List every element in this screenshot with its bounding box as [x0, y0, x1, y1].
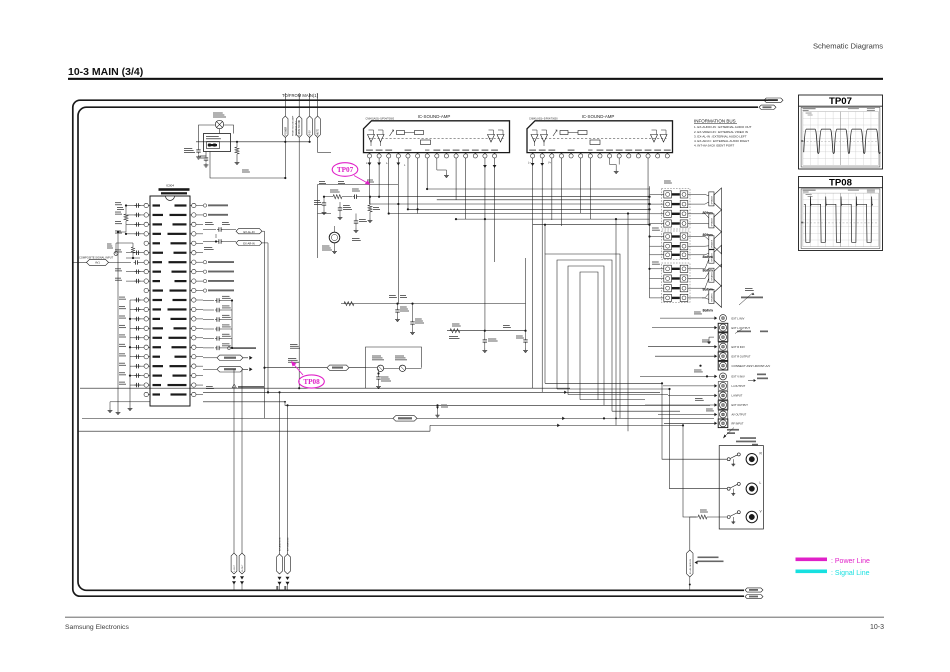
wire cluster frame below amp1 [318, 185, 399, 259]
svg-text:EX-AR-IN: EX-AR-IN [243, 242, 255, 246]
off-page connector pill MUTE [315, 93, 320, 138]
TP07 scope screen frame [801, 107, 880, 167]
speaker wires [702, 194, 709, 299]
front AV switch R [727, 453, 740, 466]
frame top outer terminator pill [764, 98, 783, 102]
ground stub near jack 3 [707, 337, 714, 344]
svg-text:L: L [760, 481, 762, 485]
resistor R871 before V jack [698, 510, 727, 520]
speaker connector pin pair row 7 [650, 251, 703, 258]
wire stub from IC004 right pin row 17 [196, 356, 203, 358]
TP08 scope left marker [801, 222, 803, 224]
label 'NOT USED IN G/50 EXTEND OUTPUT' at right pin 10 [203, 289, 234, 292]
left bus vertical wire x=130 [129, 300, 131, 406]
capacitor C845 to ground [449, 330, 498, 353]
svg-text:AV OUTPUT: AV OUTPUT [732, 413, 747, 417]
svg-text:L/-OUTPUT: L/-OUTPUT [732, 384, 746, 388]
off-page connector pill POWER [283, 93, 288, 138]
svg-text:2. EX-VIDEO-IN : EXTERNAL VIDE: 2. EX-VIDEO-IN : EXTERNAL VIDEO IN [694, 130, 748, 134]
IC004 right pin 28 [190, 336, 196, 340]
resistor R804 drop from relay rail [235, 142, 240, 165]
label OUTPUT IN note jack2 [735, 329, 768, 334]
capacitor cluster at IC004 left pin 8 [115, 268, 144, 274]
front AV RCA jack R [746, 452, 762, 465]
IC004 right pin 25 [190, 364, 196, 368]
speaker symbol 2 80hm [703, 210, 722, 237]
capacitor C842 vertical with ground [314, 197, 326, 215]
capacitor cluster at IC004 left pin 16 [119, 344, 144, 350]
capacitor cluster at IC004 left pin 2 [115, 212, 144, 218]
TP07 scope left marker [801, 140, 803, 142]
label 'NOT USED IN MONITOR' at right pin 2 [203, 213, 228, 216]
svg-text:R-OUT: R-OUT [242, 564, 244, 572]
svg-text:V+: V+ [548, 162, 552, 165]
IC004 right pin 26 [190, 355, 196, 359]
wire stub from IC004 right pin row 21 [196, 394, 203, 396]
IC801 pin wires down with arrows [366, 158, 406, 304]
wire stub from IC004 right pin row 15 [196, 337, 203, 339]
IC004 left pin 5 [144, 241, 150, 245]
capacitor cluster at IC004 left pin 13 [119, 316, 144, 322]
wire stub from IC004 right pin row 8 [196, 271, 203, 273]
wire mid rail 2 y=330.7 [447, 330, 526, 332]
svg-text:RF INPUT: RF INPUT [732, 422, 744, 426]
TP07 waveform trace [804, 129, 881, 153]
horizontal bus lines amp outputs to right [370, 189, 650, 225]
test point box TP08 outline [799, 177, 883, 251]
IC802 pins [531, 153, 670, 158]
board frame inner line [78, 107, 758, 590]
IC bottom ground [108, 402, 150, 413]
wire stub from IC004 right pin row 18 [196, 365, 203, 367]
IC004 left pin 19 [144, 373, 150, 377]
IC802 pin name row [529, 150, 670, 151]
label 'net' at right pin 6 [0, 0, 1, 1]
svg-text:TP07: TP07 [337, 166, 354, 174]
speaker connector pin pair row 11 [650, 294, 703, 301]
capacitor cluster at IC004 left pin 14 [119, 325, 144, 331]
svg-text:Schematic Diagrams: Schematic Diagrams [813, 42, 883, 51]
IC004 left pin 13 [144, 317, 150, 321]
second feeder bus [679, 189, 681, 191]
speaker connector pin pair row 3 [650, 210, 703, 217]
speaker symbol 3 8ohm [703, 232, 722, 259]
svg-text:EXT L IN/V: EXT L IN/V [732, 316, 745, 320]
svg-text:IC-SOUND-AMP: IC-SOUND-AMP [418, 114, 451, 119]
front AV switch L [727, 482, 740, 495]
IC004 right pin 42 [190, 203, 196, 207]
resistor R841 and cap C844 pair [354, 197, 380, 233]
svg-text:TP08: TP08 [303, 378, 320, 386]
off-page connector pill AV1 [87, 259, 109, 265]
capacitor C843b to ground [410, 303, 424, 335]
svg-text:EX-AL-IN: EX-AL-IN [244, 230, 255, 234]
title rule [68, 78, 883, 80]
IC004 right pin 38 [190, 241, 196, 245]
IC004 left pin 17 [144, 355, 150, 359]
svg-text:L/-INPUT: L/-INPUT [732, 394, 743, 398]
svg-text:SPEAKER: SPEAKER [710, 272, 713, 281]
bus vertical from EX pills x=264.5 [264, 231, 266, 418]
IC004 left pin 7 [144, 260, 150, 264]
TP07 scope header text [803, 108, 816, 109]
IC004 left pin 2 [144, 213, 150, 217]
svg-text:8ohm: 8ohm [703, 308, 714, 313]
IC004 left pin 1 [144, 203, 150, 207]
wire from V node down to ident pill [690, 517, 698, 550]
IC004 left pin 8 [144, 269, 150, 273]
svg-text:CN841(A03)--5/P04/T0600: CN841(A03)--5/P04/T0600 [366, 117, 395, 120]
IC004 right pin 36 [190, 260, 196, 264]
svg-text:EXT V IN/V: EXT V IN/V [732, 375, 745, 379]
resistor R844 on rail2 [450, 324, 461, 333]
IC802 pins 6,7 wires [581, 158, 591, 219]
long rail y=392.3 segment [268, 391, 660, 393]
test point marker TP07 ellipse [332, 163, 370, 185]
svg-text:V: V [760, 510, 763, 514]
speaker connector pin pair row 10 [650, 285, 703, 292]
wire relay block to lower rail [210, 152, 285, 179]
IC801 right pins wires [456, 158, 496, 331]
label NOT SURROUND OUTPUT [228, 347, 257, 350]
pill R-OUT with arrow [203, 367, 253, 372]
svg-text:4. INT-AV-JACK IDENT PORT: 4. INT-AV-JACK IDENT PORT [694, 143, 734, 147]
svg-text:EX-AUDIO-IN: EX-AUDIO-IN [279, 537, 282, 551]
wire stub from IC004 right pin row 1 [196, 205, 203, 207]
TP08 scope graticule [803, 193, 879, 247]
resistor R841b on mid rail [344, 302, 354, 306]
note REPAIR SP [739, 288, 763, 305]
RCA jack 12 RF INPUT [718, 419, 744, 428]
IC004 right pin 29 [190, 326, 196, 330]
IC802 internal op-amp triangles left [531, 130, 548, 146]
wire mid rail y=303.6 [341, 303, 526, 305]
IC004 right pin 22 [190, 392, 196, 396]
label JUMP 829 [290, 344, 298, 345]
IC004 left pin 3 [144, 222, 150, 226]
wires into AV box [662, 383, 727, 517]
IC004 right pin 30 [190, 317, 196, 321]
audio out line R to bottom pill [239, 369, 245, 590]
wire L-OUT arrow to vertical [255, 358, 257, 370]
RCA jack 3 aux [718, 333, 728, 342]
IC004 right pin 24 [190, 373, 196, 377]
pill EX-AL-IN [203, 227, 262, 234]
svg-text:8ohm: 8ohm [703, 286, 714, 291]
ex-video line to bottom pill [285, 405, 291, 590]
jumper R829B [384, 356, 422, 372]
capacitor cluster at IC004 left pin 1 [115, 202, 144, 208]
wire loop around jumper resistors [366, 347, 422, 388]
svg-text:TO/FROM MAIN(1): TO/FROM MAIN(1) [282, 93, 319, 98]
legend signal line [796, 570, 870, 578]
wire stub from IC004 right pin row 19 [196, 375, 203, 377]
wire composite input [73, 261, 87, 263]
junction dots on long rails [278, 391, 280, 393]
capacitor cluster at IC004 left pin 15 [119, 334, 144, 340]
svg-text:CN841(A03)--5/P04/T0600: CN841(A03)--5/P04/T0600 [529, 117, 558, 120]
label 'NOT USED IN MONITOR' at right pin 1 [203, 204, 228, 207]
IC004 right pin 35 [190, 269, 196, 273]
wire from-sound pill down [298, 138, 300, 389]
capacitor cluster at IC004 left pin 3 [115, 221, 144, 227]
jumper labels left of jacks [694, 312, 714, 412]
svg-text:EXT R IN/V: EXT R IN/V [732, 345, 746, 349]
small caps column right of IC mid [203, 296, 233, 350]
svg-text:POWER: POWER [285, 126, 287, 135]
capacitor cluster at IC004 left pin 11 [119, 297, 144, 303]
svg-text:L: L [404, 164, 406, 167]
svg-text:: Power Line: : Power Line [831, 558, 870, 565]
label 'net' at right pin 5 [0, 0, 1, 1]
IC IC802 body [527, 121, 673, 153]
IC802 internal op-amp triangles right [651, 130, 668, 142]
wire mute pill down [317, 138, 319, 153]
bus vertical x=268 [267, 243, 269, 392]
wire stub from IC004 right pin row 6 [196, 252, 203, 254]
wire stub from IC004 right pin row 12 [196, 308, 203, 310]
pill A-CN [263, 365, 365, 370]
TP07 scope graticule [803, 112, 879, 166]
IC004 right pin 37 [190, 251, 196, 255]
TP08 waveform trace [804, 197, 873, 243]
svg-text:SPEAKER: SPEAKER [710, 217, 713, 226]
RCA jack 11 AV OUTPUT [718, 410, 746, 419]
IC004 right pin 40 [190, 222, 196, 226]
front AV RCA jack L [746, 481, 761, 494]
speaker connector pin pair row 9 [650, 275, 703, 282]
IC004 internal pin-name bars [153, 204, 187, 395]
speaker symbol 4 8ohm [703, 245, 722, 272]
RCA jack 5 EXT R OUTPUT [718, 352, 751, 361]
jumper R829A [366, 356, 385, 372]
note JACK INSERT levels [695, 557, 724, 565]
wire main power rail y=142 [196, 141, 310, 143]
resistor R802 upper left of IC [117, 206, 128, 234]
legend power line [796, 558, 871, 566]
long rail y=418.4 with EX-AL-IN pill [82, 416, 714, 421]
label 'NOT USED IN L/50 INPUT' at right pin 8 [203, 270, 234, 273]
electrolytic speaker SP802 piezo [322, 226, 340, 254]
wire stub from IC004 right pin row 14 [196, 327, 203, 329]
RCA jack 7 EXT V IN/V [720, 373, 745, 380]
label ROTARY OP under jacks [723, 428, 739, 439]
IC801 internal dashed bus [370, 137, 504, 139]
front AV RCA jack V [746, 510, 762, 523]
wire stub from IC004 right pin row 4 [196, 233, 203, 235]
wire stub from IC004 right pin row 20 [196, 384, 203, 386]
pill EX-AR-IN [203, 239, 262, 245]
svg-text:SPEAKER: SPEAKER [710, 293, 713, 302]
speaker connector pin pair row 6 [650, 243, 703, 250]
svg-text:EX-VIDEO-IN: EX-VIDEO-IN [288, 537, 290, 551]
IC004 left pin 21 [144, 392, 150, 396]
svg-text:EXT R OUTPUT: EXT R OUTPUT [732, 354, 751, 358]
svg-text:COMPOSITE SIGNAL INPUT: COMPOSITE SIGNAL INPUT [79, 256, 114, 260]
speaker bus right vertical [721, 197, 723, 296]
capacitor cluster at IC004 left pin 4 [115, 230, 144, 236]
IC IC801 body [364, 121, 510, 153]
svg-text:: Signal Line: : Signal Line [831, 570, 870, 577]
IC004 left pin 6 [144, 251, 150, 255]
svg-text:EXT OUTPUT: EXT OUTPUT [732, 403, 749, 407]
svg-text:SPEAKER: SPEAKER [710, 239, 713, 248]
IC004 right pin 33 [190, 288, 196, 292]
svg-text:R: R [760, 452, 763, 456]
svg-text:MUTE: MUTE [318, 129, 320, 136]
wire stub from IC004 right pin row 2 [196, 214, 203, 216]
label 4P CN825 [652, 262, 659, 263]
svg-text:TP08: TP08 [829, 178, 853, 189]
label SP 1 CN824 [652, 228, 659, 229]
wire power pill down to relay rail [284, 138, 286, 179]
junction dots speaker feeders [648, 203, 650, 205]
svg-text:IC-SOUND-AMP: IC-SOUND-AMP [582, 114, 615, 119]
svg-text:FROM SOUND AMP: FROM SOUND AMP [292, 115, 295, 136]
RCA jack 8 L/-OUTPUT [718, 382, 745, 391]
IC802 internal blocks [553, 130, 600, 145]
speaker symbol 6 8ohm [703, 285, 722, 312]
IC004 right pin 41 [190, 213, 196, 217]
IC801 internal op-amp triangles left [368, 130, 385, 146]
IC004 right pin 27 [190, 345, 196, 349]
pill EX-AV-JACK ident [687, 550, 693, 577]
vertical feeders from bus rows down right side [544, 212, 629, 431]
test point marker TP08 ellipse [291, 361, 324, 388]
svg-text:3. EX-AL-IN : EXTERNAL AUDIO L: 3. EX-AL-IN : EXTERNAL AUDIO LEFT [694, 134, 747, 138]
wire ident pill to bottom frame [689, 577, 691, 590]
speaker connector pin pair row 8 [650, 265, 703, 272]
label R808 on wire [242, 170, 249, 171]
speaker symbol 1 80hm [703, 188, 722, 215]
TP08 scope header text [803, 190, 816, 191]
label digital ground for ics [232, 384, 264, 388]
IC004 right pin 34 [190, 279, 196, 283]
IC801 pin5-7 wires [408, 158, 449, 214]
rail y=425.4 [430, 424, 683, 426]
svg-text:A-5V: A-5V [309, 130, 312, 136]
svg-text:80hm: 80hm [703, 210, 714, 215]
TP08 scope screen frame [801, 189, 880, 249]
svg-text:Samsung Electronics: Samsung Electronics [65, 624, 129, 631]
svg-text:10-3: 10-3 [870, 624, 884, 631]
label 'NOT USED IN G/50 EXTEND OUTPUT' at right pin 9 [203, 279, 234, 282]
RCA jack 2 EXT L OUTPUT [718, 323, 750, 332]
IC801 pin name row [366, 150, 498, 151]
IC802 internal dashed bus [533, 137, 667, 139]
front AV switch V [727, 511, 740, 524]
svg-text:IC004: IC004 [166, 184, 174, 188]
svg-text:EXT L OUTPUT: EXT L OUTPUT [732, 326, 751, 330]
left feeder bus for speaker connectors [649, 186, 651, 298]
IC801 pins [367, 153, 496, 158]
speaker connector pin pair row 5 [650, 233, 703, 240]
IC004 left pin 12 [144, 307, 150, 311]
wire stub from IC004 right pin row 13 [196, 318, 203, 320]
svg-text:SPEAKER: SPEAKER [710, 195, 713, 204]
svg-text:SOUND-B OUT: SOUND-B OUT [296, 120, 298, 136]
IC802 pin wires down with arrows [528, 158, 561, 392]
capacitor C843 with label [338, 202, 352, 220]
IC004 right pin 23 [190, 383, 196, 387]
IC004 left pin 20 [144, 383, 150, 387]
capacitor cluster at IC004 left pin 9 [115, 278, 144, 284]
wire a-5v pill down [309, 138, 311, 142]
wire stub from IC004 right pin row 16 [196, 346, 203, 348]
capacitor C806 cluster left of CN802 [184, 142, 208, 167]
labels C851 R852 top of cluster [319, 181, 325, 182]
IC801 internal op-amp triangles right [488, 130, 505, 142]
RCA jack 1 EXT L IN/V [720, 315, 745, 322]
capacitor C846 to ground right [503, 325, 528, 353]
IC IC004 video/chroma processor [150, 184, 190, 407]
off-page connector pill A-5V [307, 93, 312, 138]
connector group outlines dashed [662, 189, 691, 303]
capacitor C814 on composite input [134, 261, 136, 263]
speaker connector pin pair row 1 [650, 191, 703, 198]
capacitor cluster at IC004 left pin 19 [119, 372, 144, 378]
svg-text:EX-AV-JACK-IN: EX-AV-JACK-IN [689, 559, 692, 574]
label SVHS MONO OP at jack EXT V [748, 374, 768, 382]
feeder rails into jack rows [545, 328, 670, 432]
junction dots at jack feeds [699, 365, 701, 367]
ground at left bus bottom [117, 410, 119, 412]
frame bottom inner terminator pill [745, 588, 763, 592]
left bus vertical wire x=118 [117, 232, 119, 410]
components R810 C815 near EX pills [204, 222, 230, 250]
nested wire loops right of center [545, 254, 620, 418]
svg-text:INFORMATION BUS: INFORMATION BUS [694, 119, 736, 124]
long rail y=388.2 [80, 387, 570, 389]
vertical joins for RC rows [485, 258, 526, 331]
capacitor C841 on node [352, 189, 380, 199]
IC004 left pin 9 [144, 279, 150, 283]
note INFORMATION BUS [694, 119, 752, 148]
IC004 left pin 16 [144, 345, 150, 349]
pill L-OUT with arrow [203, 355, 253, 360]
capacitor cluster at IC004 left pin 12 [119, 306, 144, 312]
label CN820 8P [664, 181, 671, 182]
frame top inner terminator pill [759, 105, 776, 109]
frame bottom outer terminator pill [745, 595, 763, 599]
svg-text:SPEAKER: SPEAKER [710, 253, 713, 262]
svg-text:10-3 MAIN (3/4): 10-3 MAIN (3/4) [68, 66, 143, 78]
connector CN802 TO MAIN PCB [204, 134, 231, 152]
FB801 ferrite bead loop [107, 243, 140, 259]
test point box TP07 outline [799, 95, 883, 169]
RCA jack 10 EXT OUTPUT [718, 401, 748, 410]
speaker symbol 5 8ohm [703, 264, 722, 291]
resistor R806 bottom right pin [203, 386, 269, 393]
speaker connector pin pair row 2 [650, 201, 703, 208]
svg-text:FROM SOUND: FROM SOUND [299, 119, 301, 135]
IC802 ground pins 9-10 [610, 158, 620, 174]
IC802 pin 13 long wire [647, 158, 649, 225]
capacitor cluster at IC004 left pin 17 [119, 353, 144, 359]
wire stub from IC004 right pin row 10 [196, 290, 203, 292]
label V+ 7.5V [352, 238, 360, 239]
board frame outer line [73, 100, 778, 596]
connector front AV box outline [719, 446, 763, 529]
ex-audio line to bottom pill [277, 392, 283, 590]
capacitor C842b to ground [389, 295, 409, 322]
IC004 right pin 31 [190, 307, 196, 311]
wire bottom-most right pin to long rail [203, 401, 285, 403]
wire stub from IC004 right pin row 3 [196, 223, 203, 225]
relay RL801 [213, 113, 226, 129]
RCA jack 6 CONNECT ASSY-FRONT-A/V [718, 361, 770, 370]
svg-text:CONNECT ASSY-FRONT-A/V: CONNECT ASSY-FRONT-A/V [732, 364, 771, 368]
